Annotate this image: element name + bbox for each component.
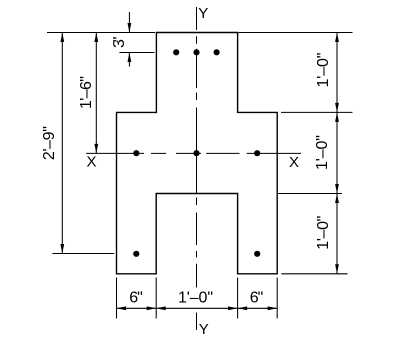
extension lines xyxy=(47,33,353,319)
rebar row 3 extension line left xyxy=(52,253,114,255)
svg-text:6": 6" xyxy=(129,289,143,306)
rebar dot row 2 left xyxy=(133,150,139,156)
svg-text:1'–0": 1'–0" xyxy=(314,135,331,170)
dimension 3" lower line and arrow xyxy=(128,53,130,67)
dimension line 1'-6" xyxy=(95,33,97,154)
svg-text:6": 6" xyxy=(250,289,264,306)
dimension 3" upper line and arrow xyxy=(128,12,130,33)
top extension line right xyxy=(239,32,353,34)
dimension line 2'-9" xyxy=(61,33,63,254)
svg-text:X: X xyxy=(86,153,96,170)
X axis centerline xyxy=(86,152,301,154)
svg-text:Y: Y xyxy=(198,5,208,22)
svg-text:1'–0": 1'–0" xyxy=(315,53,332,88)
rebar dot row 1 left xyxy=(173,49,179,55)
svg-text:2'–9": 2'–9" xyxy=(41,126,58,160)
svg-text:1'–6": 1'–6" xyxy=(78,76,95,109)
rebar dot row 2 center xyxy=(193,150,199,156)
top extension line left xyxy=(47,32,155,34)
svg-text:1'–0": 1'–0" xyxy=(315,216,332,250)
svg-text:Y: Y xyxy=(199,321,209,338)
bottom edge extension line right xyxy=(281,273,347,275)
bottom extension line at x=277.4 xyxy=(276,278,278,319)
rebar dot row 2 right xyxy=(254,150,260,156)
rebar dot row 3 right xyxy=(254,251,260,257)
rebar dot row 1 right xyxy=(214,49,220,55)
bottom extension line at x=237.6 xyxy=(237,278,239,319)
Y axis centerline xyxy=(196,7,198,330)
svg-text:1'–0": 1'–0" xyxy=(178,289,213,306)
svg-text:X: X xyxy=(289,154,299,171)
bottom dimension line xyxy=(117,307,278,309)
rebar row 1 extension line xyxy=(119,52,154,54)
right dimension line (three 1'-0" segments) xyxy=(336,33,338,274)
bottom extension line at x=116.5 xyxy=(116,278,118,319)
rebar dot row 3 left xyxy=(133,251,139,257)
slot top extension line right xyxy=(278,193,342,195)
bottom extension line at x=156 xyxy=(155,278,157,319)
rebar dot row 1 center xyxy=(193,49,199,55)
right step extension line xyxy=(281,111,353,113)
svg-text:3": 3" xyxy=(111,37,128,49)
column cross-section outline xyxy=(117,33,278,274)
